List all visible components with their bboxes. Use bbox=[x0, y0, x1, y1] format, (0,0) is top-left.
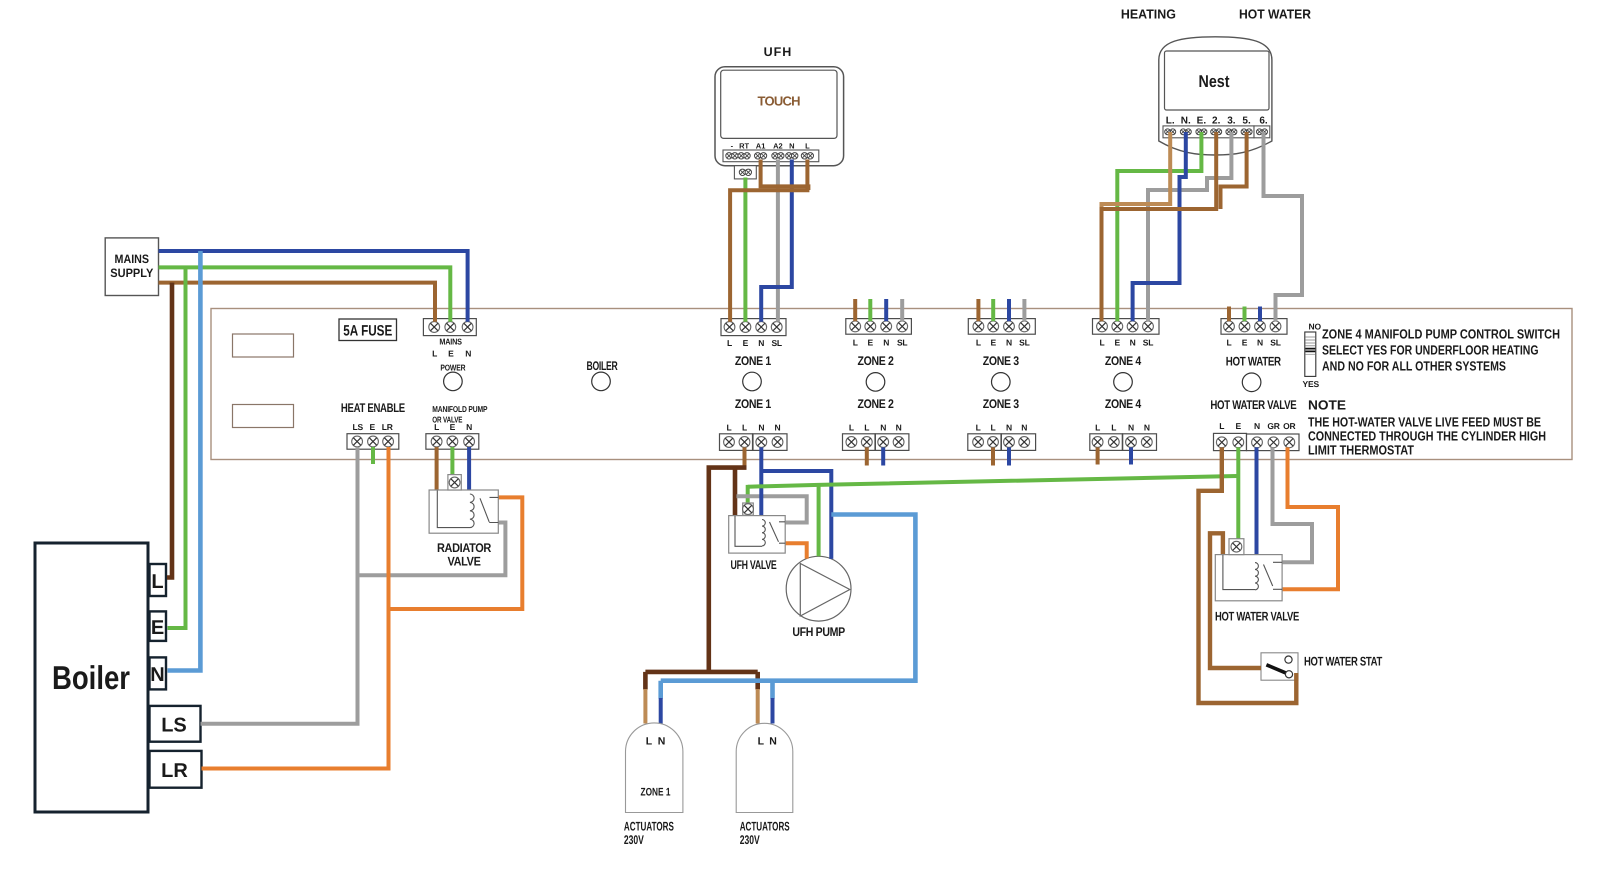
svg-text:6.: 6. bbox=[1259, 116, 1268, 127]
svg-text:SELECT YES FOR UNDERFLOOR HEAT: SELECT YES FOR UNDERFLOOR HEATING bbox=[1322, 343, 1539, 358]
svg-text:HOT WATER STAT: HOT WATER STAT bbox=[1304, 655, 1383, 669]
svg-text:YES: YES bbox=[1303, 379, 1320, 389]
svg-text:N: N bbox=[1006, 423, 1012, 433]
svg-text:THE HOT-WATER VALVE LIVE FEED: THE HOT-WATER VALVE LIVE FEED MUST BE bbox=[1308, 415, 1541, 430]
svg-text:ZONE 4: ZONE 4 bbox=[1105, 397, 1141, 411]
svg-text:E: E bbox=[1236, 421, 1242, 431]
svg-text:LR: LR bbox=[382, 422, 393, 432]
wire supply E green down to boiler E bbox=[168, 267, 186, 628]
svg-text:NO: NO bbox=[1309, 322, 1322, 332]
svg-text:SL: SL bbox=[1143, 337, 1153, 347]
wire hot water L stub bbox=[1227, 307, 1231, 322]
svg-text:RADIATOR: RADIATOR bbox=[437, 541, 491, 555]
svg-text:SL: SL bbox=[1270, 337, 1280, 347]
svg-text:ZONE 2: ZONE 2 bbox=[858, 354, 894, 368]
svg-text:ACTUATORS: ACTUATORS bbox=[740, 820, 790, 834]
boiler terminal E bbox=[150, 611, 167, 641]
wire zone3 L stub bbox=[976, 299, 980, 321]
wire manifold L brown to radiator valve bbox=[435, 447, 439, 490]
hot water stat bbox=[1261, 653, 1383, 680]
wire UFH stat N blue to zone1 N bbox=[761, 160, 792, 322]
wire light blue N bus to actuators bbox=[661, 515, 916, 699]
UFH valve body bbox=[729, 503, 786, 572]
svg-text:L: L bbox=[742, 423, 747, 433]
svg-text:N: N bbox=[658, 736, 666, 748]
svg-text:N: N bbox=[465, 349, 471, 359]
UFH valve switch bbox=[770, 522, 786, 543]
blank rectangle 2 bbox=[233, 405, 294, 428]
svg-text:E: E bbox=[1242, 337, 1248, 347]
svg-text:E: E bbox=[743, 338, 749, 348]
UFH terminal strip bbox=[723, 150, 819, 162]
svg-text:L: L bbox=[853, 337, 858, 347]
wire zone2 E stub bbox=[868, 299, 872, 321]
svg-text:Boiler: Boiler bbox=[52, 659, 130, 696]
svg-text:TOUCH: TOUCH bbox=[758, 94, 801, 109]
blank rectangle 1 bbox=[233, 334, 294, 357]
svg-text:SL: SL bbox=[771, 338, 781, 348]
svg-text:UFH: UFH bbox=[764, 45, 793, 59]
MAINS terminal block bbox=[423, 319, 476, 359]
svg-text:ACTUATORS: ACTUATORS bbox=[624, 820, 674, 834]
wire boiler LR orange to HEAT ENABLE LR bbox=[202, 447, 389, 769]
note text zone 4 manifold pump control switch bbox=[1322, 327, 1560, 374]
wire UFH stat RT green to zone1 E bbox=[743, 178, 747, 322]
svg-text:HOT WATER VALVE: HOT WATER VALVE bbox=[1215, 610, 1299, 624]
svg-text:E.: E. bbox=[1197, 116, 1207, 127]
UFH RT sensor terminal box bbox=[734, 166, 756, 179]
svg-text:2.: 2. bbox=[1212, 116, 1221, 127]
svg-text:LS: LS bbox=[352, 422, 363, 432]
Nest terminal strip bbox=[1163, 126, 1254, 138]
svg-text:UFH PUMP: UFH PUMP bbox=[792, 625, 845, 639]
zone 4 manifold pump control switch NO/YES bbox=[1303, 322, 1322, 389]
ZONE 2 top terminal block bbox=[846, 319, 912, 348]
wire UFH valve switch orange to pump bbox=[785, 543, 807, 558]
svg-text:5.: 5. bbox=[1242, 116, 1251, 127]
svg-text:N: N bbox=[880, 423, 886, 433]
hot water valve body bbox=[1215, 539, 1299, 624]
svg-text:N.: N. bbox=[1181, 116, 1191, 127]
svg-text:ZONE 3: ZONE 3 bbox=[983, 354, 1019, 368]
wire hot water valve N blue bbox=[1255, 447, 1259, 556]
svg-text:230V: 230V bbox=[624, 833, 644, 847]
wire zone3 E stub bbox=[991, 299, 995, 321]
wire mains supply E green to MAINS E bbox=[159, 267, 451, 321]
svg-text:A1: A1 bbox=[756, 142, 766, 151]
svg-text:N: N bbox=[1130, 337, 1136, 347]
wire UFH stat A2 grey to zone1 SL bbox=[776, 160, 780, 322]
svg-text:L: L bbox=[434, 422, 439, 432]
svg-text:N: N bbox=[1257, 337, 1263, 347]
wire zone3 SL stub bbox=[1022, 299, 1026, 321]
wire actuator 1 L tan stub bbox=[643, 689, 647, 724]
svg-text:LR: LR bbox=[161, 760, 188, 782]
svg-text:HOT WATER: HOT WATER bbox=[1226, 355, 1281, 369]
svg-text:GR: GR bbox=[1267, 421, 1279, 431]
svg-text:230V: 230V bbox=[740, 833, 760, 847]
svg-text:NOTE: NOTE bbox=[1308, 398, 1346, 413]
svg-text:E: E bbox=[448, 349, 454, 359]
wire hot water valve E green bbox=[1236, 447, 1240, 540]
wire UFH valve switch grey to L bbox=[737, 496, 807, 522]
svg-text:E: E bbox=[450, 422, 456, 432]
svg-text:MANIFOLD PUMP: MANIFOLD PUMP bbox=[432, 404, 487, 414]
wire nest 2 brown to zone4 L bbox=[1102, 132, 1217, 321]
hot water valve switch bbox=[1264, 562, 1283, 589]
HOT WATER indicator bbox=[1210, 355, 1296, 413]
boiler terminal LR bbox=[150, 751, 202, 788]
boiler terminal L bbox=[150, 564, 167, 596]
radiator valve switch bbox=[480, 497, 498, 522]
svg-text:ZONE 4: ZONE 4 bbox=[1105, 354, 1141, 368]
svg-text:L.: L. bbox=[1166, 116, 1175, 127]
svg-text:ZONE 2: ZONE 2 bbox=[858, 397, 894, 411]
wire zone3 bottom L stub bbox=[991, 447, 995, 465]
svg-text:L: L bbox=[1219, 421, 1224, 431]
svg-text:HEATING: HEATING bbox=[1121, 7, 1176, 22]
svg-text:SL: SL bbox=[1019, 337, 1029, 347]
wire nest E green to zone4 E bbox=[1117, 132, 1201, 321]
wire hot water valve GR grey to switch bbox=[1273, 447, 1313, 562]
wire hot water valve coil brown to stat bbox=[1210, 533, 1261, 668]
svg-text:OR: OR bbox=[1283, 421, 1295, 431]
svg-text:A2: A2 bbox=[773, 142, 783, 151]
ZONE 2 bottom terminal blocks bbox=[843, 423, 909, 451]
boiler terminal N bbox=[150, 657, 167, 689]
wire radiator valve switch orange to LR line bbox=[389, 497, 523, 609]
UFH pump bbox=[786, 556, 851, 639]
wire nest 3 grey to zone4 SL bbox=[1148, 132, 1231, 321]
wire hot water N stub bbox=[1258, 307, 1262, 322]
svg-text:L: L bbox=[1111, 423, 1116, 433]
wire supply L dark brown down to boiler L bbox=[167, 283, 172, 578]
radiator valve coil bbox=[437, 491, 474, 528]
wire mains supply L brown to MAINS L bbox=[159, 283, 436, 322]
svg-text:SL: SL bbox=[897, 337, 907, 347]
svg-text:CONNECTED THROUGH THE CYLINDER: CONNECTED THROUGH THE CYLINDER HIGH bbox=[1308, 429, 1546, 444]
svg-text:L: L bbox=[1095, 423, 1100, 433]
wire actuator 1 N blue stub bbox=[659, 698, 663, 724]
svg-text:Nest: Nest bbox=[1199, 72, 1230, 91]
svg-text:HEAT ENABLE: HEAT ENABLE bbox=[341, 401, 405, 415]
svg-text:L: L bbox=[727, 423, 732, 433]
actuator 2 bbox=[736, 723, 793, 847]
ZONE 1 bottom terminal blocks bbox=[720, 423, 788, 451]
wire boiler LS grey to HEAT ENABLE LS bbox=[201, 447, 358, 724]
ZONE 2 indicator bbox=[858, 354, 894, 411]
svg-text:UFH VALVE: UFH VALVE bbox=[731, 558, 777, 572]
actuator zone 1 bbox=[624, 723, 683, 847]
POWER indicator bbox=[440, 363, 465, 391]
svg-text:N: N bbox=[883, 337, 889, 347]
svg-text:HOT WATER VALVE: HOT WATER VALVE bbox=[1210, 398, 1296, 412]
wire zone3 N stub bbox=[1007, 299, 1011, 321]
wire UFH valve earth green stub bbox=[746, 485, 750, 504]
wire actuator 2 N blue stub bbox=[771, 698, 775, 724]
ZONE 4 top terminal block bbox=[1093, 319, 1160, 348]
svg-text:E: E bbox=[1115, 337, 1121, 347]
wire zone1 L2 brown stub bbox=[743, 447, 747, 466]
wire hot water valve OR orange to switch bbox=[1282, 447, 1338, 589]
ZONE 3 indicator bbox=[983, 354, 1019, 411]
svg-text:SUPPLY: SUPPLY bbox=[110, 266, 153, 280]
svg-text:HOT WATER: HOT WATER bbox=[1239, 7, 1312, 22]
wire nest 6 grey to hot water SL bbox=[1264, 132, 1303, 321]
wire nest 5 brown jog bbox=[1221, 132, 1247, 209]
UFH terminal labels - RT A1 A2 N L bbox=[731, 142, 810, 151]
wire zone4 bottom L stub bbox=[1096, 447, 1100, 464]
ZONE 4 indicator bbox=[1105, 354, 1141, 411]
wire UFH stat L brown to zone1 L bbox=[730, 160, 807, 322]
svg-text:N: N bbox=[1021, 423, 1027, 433]
MAINS SUPPLY box bbox=[105, 238, 158, 296]
svg-text:N: N bbox=[758, 338, 764, 348]
wire zone2 N stub bbox=[884, 299, 888, 321]
svg-text:N: N bbox=[150, 664, 164, 686]
svg-text:L: L bbox=[805, 142, 810, 151]
ZONE 3 top terminal block bbox=[968, 319, 1035, 348]
wire actuator 2 L tan stub bbox=[756, 689, 760, 724]
svg-text:POWER: POWER bbox=[440, 363, 465, 373]
svg-text:AND NO FOR ALL OTHER SYSTEMS: AND NO FOR ALL OTHER SYSTEMS bbox=[1322, 359, 1506, 374]
svg-text:N: N bbox=[466, 422, 472, 432]
wire zone2 bottom L stub bbox=[865, 447, 869, 465]
wire manifold N blue to radiator valve bbox=[467, 447, 471, 493]
Nest heat link body bbox=[1159, 37, 1272, 155]
MANIFOLD PUMP OR VALVE block bbox=[426, 404, 488, 449]
wire UFH stat A1 brown jog bbox=[761, 160, 809, 191]
svg-text:ZONE 4 MANIFOLD PUMP CONTROL S: ZONE 4 MANIFOLD PUMP CONTROL SWITCH bbox=[1322, 327, 1560, 342]
Nest terminal labels L. N. E. 2. 3. 5. 6. bbox=[1166, 116, 1268, 127]
svg-text:L: L bbox=[758, 736, 765, 748]
svg-text:5A FUSE: 5A FUSE bbox=[343, 323, 392, 340]
wire radiator valve switch grey to LS line bbox=[358, 523, 506, 576]
svg-text:E: E bbox=[151, 617, 164, 639]
wire supply N light blue down to boiler N bbox=[168, 251, 201, 671]
svg-text:MAINS: MAINS bbox=[115, 252, 150, 266]
svg-text:L: L bbox=[1100, 337, 1105, 347]
svg-text:E: E bbox=[369, 422, 375, 432]
wire green branch to pump bbox=[817, 485, 821, 556]
wiring centre panel bbox=[211, 309, 1572, 460]
wire earth green UFH valve to hot water valve bbox=[748, 476, 1237, 487]
svg-text:E: E bbox=[868, 337, 874, 347]
hot water valve coil bbox=[1223, 555, 1258, 590]
UFH valve coil bbox=[735, 516, 765, 546]
wire hot water E stub bbox=[1243, 307, 1247, 322]
wire nest L tan to zone4 L feed bbox=[1102, 132, 1171, 210]
fuse label box 5A FUSE bbox=[339, 319, 397, 341]
svg-text:ZONE 3: ZONE 3 bbox=[983, 397, 1019, 411]
svg-text:N: N bbox=[758, 423, 764, 433]
wire zone2 bottom N stub bbox=[881, 447, 885, 465]
svg-text:RT: RT bbox=[739, 142, 749, 151]
svg-text:N: N bbox=[775, 423, 781, 433]
svg-text:N: N bbox=[789, 142, 794, 151]
svg-text:ZONE 1: ZONE 1 bbox=[735, 354, 771, 368]
svg-text:BOILER: BOILER bbox=[587, 359, 618, 373]
wire zone1 L dark brown bus to actuators bbox=[645, 468, 757, 690]
svg-text:E: E bbox=[990, 337, 996, 347]
wire mains supply N blue to MAINS N bbox=[159, 251, 468, 322]
radiator valve body bbox=[429, 475, 498, 569]
svg-text:L: L bbox=[646, 736, 653, 748]
BOILER indicator bbox=[587, 359, 618, 391]
wire zone4 bottom N stub bbox=[1129, 447, 1133, 464]
wire zone2 SL stub bbox=[900, 299, 904, 321]
svg-text:L: L bbox=[864, 423, 869, 433]
svg-text:ZONE 1: ZONE 1 bbox=[735, 397, 771, 411]
wire zone1 N blue branch to pump bbox=[761, 471, 831, 559]
wire manifold E green to radiator valve earth bbox=[450, 447, 454, 475]
svg-text:L: L bbox=[849, 423, 854, 433]
ZONE 4 bottom terminal blocks bbox=[1090, 423, 1157, 451]
wire zone1 N1 blue to UFH valve bbox=[759, 447, 763, 517]
svg-text:L: L bbox=[976, 337, 981, 347]
svg-text:N: N bbox=[769, 736, 777, 748]
svg-text:LIMIT THERMOSTAT: LIMIT THERMOSTAT bbox=[1308, 443, 1414, 458]
svg-text:L: L bbox=[432, 349, 437, 359]
svg-text:N: N bbox=[1006, 337, 1012, 347]
HOT WATER VALVE bottom terminal blocks bbox=[1214, 421, 1300, 451]
svg-text:N: N bbox=[1254, 421, 1260, 431]
svg-text:N: N bbox=[1144, 423, 1150, 433]
svg-text:VALVE: VALVE bbox=[448, 555, 481, 569]
note text hot-water valve live feed bbox=[1308, 398, 1546, 458]
svg-text:3.: 3. bbox=[1227, 116, 1236, 127]
svg-text:L: L bbox=[991, 423, 996, 433]
svg-text:L: L bbox=[151, 571, 163, 593]
svg-text:L: L bbox=[1227, 337, 1232, 347]
svg-text:N: N bbox=[896, 423, 902, 433]
boiler box bbox=[35, 543, 148, 812]
svg-text:L: L bbox=[976, 423, 981, 433]
UFH thermostat body bbox=[715, 67, 844, 179]
wire hot water valve L brown through stat bbox=[1199, 447, 1297, 703]
ZONE 3 bottom terminal blocks bbox=[968, 423, 1036, 451]
wire zone2 L stub bbox=[853, 299, 857, 321]
wire HEAT ENABLE E green stub bbox=[371, 447, 375, 464]
svg-text:LS: LS bbox=[161, 715, 187, 737]
svg-text:N: N bbox=[1128, 423, 1134, 433]
wire dark brown branch to UFH valve coil bbox=[733, 468, 738, 517]
boiler terminal LS bbox=[150, 706, 201, 742]
wire nest N blue to zone4 N bbox=[1133, 132, 1186, 321]
svg-text:MAINS: MAINS bbox=[439, 337, 462, 347]
svg-text:L: L bbox=[727, 338, 732, 348]
wire zone3 bottom N stub bbox=[1007, 447, 1011, 465]
ZONE 1 indicator bbox=[735, 354, 771, 411]
svg-text:ZONE 1: ZONE 1 bbox=[641, 787, 671, 799]
ZONE 1 top terminal block bbox=[721, 319, 786, 348]
HOT WATER top terminal block bbox=[1221, 319, 1287, 348]
HEAT ENABLE block bbox=[341, 401, 405, 449]
